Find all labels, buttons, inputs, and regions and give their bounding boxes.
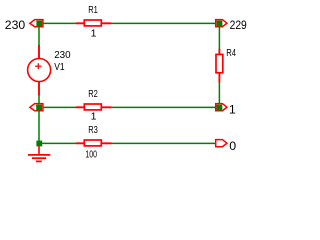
svg-text:229: 229: [230, 18, 247, 32]
svg-text:R2: R2: [88, 88, 98, 100]
junction node 229 top-right: [217, 21, 223, 27]
svg-text:R3: R3: [88, 124, 98, 136]
resistor R1: [76, 20, 111, 26]
ground: [28, 146, 50, 161]
node tag 1: [216, 104, 227, 111]
resistor R4: [216, 49, 223, 83]
wire mid node to R2: [40, 106, 76, 108]
wire top node to R1: [40, 22, 76, 24]
node tag 229: [216, 20, 227, 27]
svg-text:230: 230: [54, 49, 71, 61]
wire R2 to node 1: [111, 106, 218, 108]
svg-text:0: 0: [229, 139, 236, 153]
svg-text:1: 1: [91, 110, 97, 122]
svg-text:1: 1: [91, 27, 97, 39]
wire left column upper (node 230 to V1): [38, 26, 40, 46]
svg-text:1: 1: [229, 103, 236, 117]
svg-text:100: 100: [85, 148, 97, 160]
wire R3 to node 0: [111, 142, 216, 144]
node tag 0: [216, 140, 227, 147]
junction ground node bottom-left: [36, 141, 42, 147]
wire left column V1 to mid node: [38, 95, 40, 106]
svg-text:230: 230: [5, 18, 25, 32]
svg-text:R4: R4: [226, 47, 236, 59]
svg-text:R1: R1: [88, 4, 98, 16]
wire left column mid node to ground junction: [38, 110, 40, 143]
wire right column lower (R4 to node 1): [218, 82, 220, 106]
resistor R2: [76, 104, 111, 110]
node tag mid-left (unnamed): [30, 104, 43, 111]
junction node 1 mid-right: [217, 105, 223, 111]
wire R1 to node 229: [111, 22, 218, 24]
resistor R3: [76, 140, 111, 146]
junction mid-left node: [36, 105, 42, 111]
junction node 230 top-left: [36, 21, 42, 27]
wire right column upper (node 229 to R4): [218, 26, 220, 50]
node tag 230: [30, 20, 43, 27]
wire ground junction to R3: [40, 142, 76, 144]
svg-text:V1: V1: [54, 61, 65, 73]
voltage source V1: [28, 45, 51, 95]
